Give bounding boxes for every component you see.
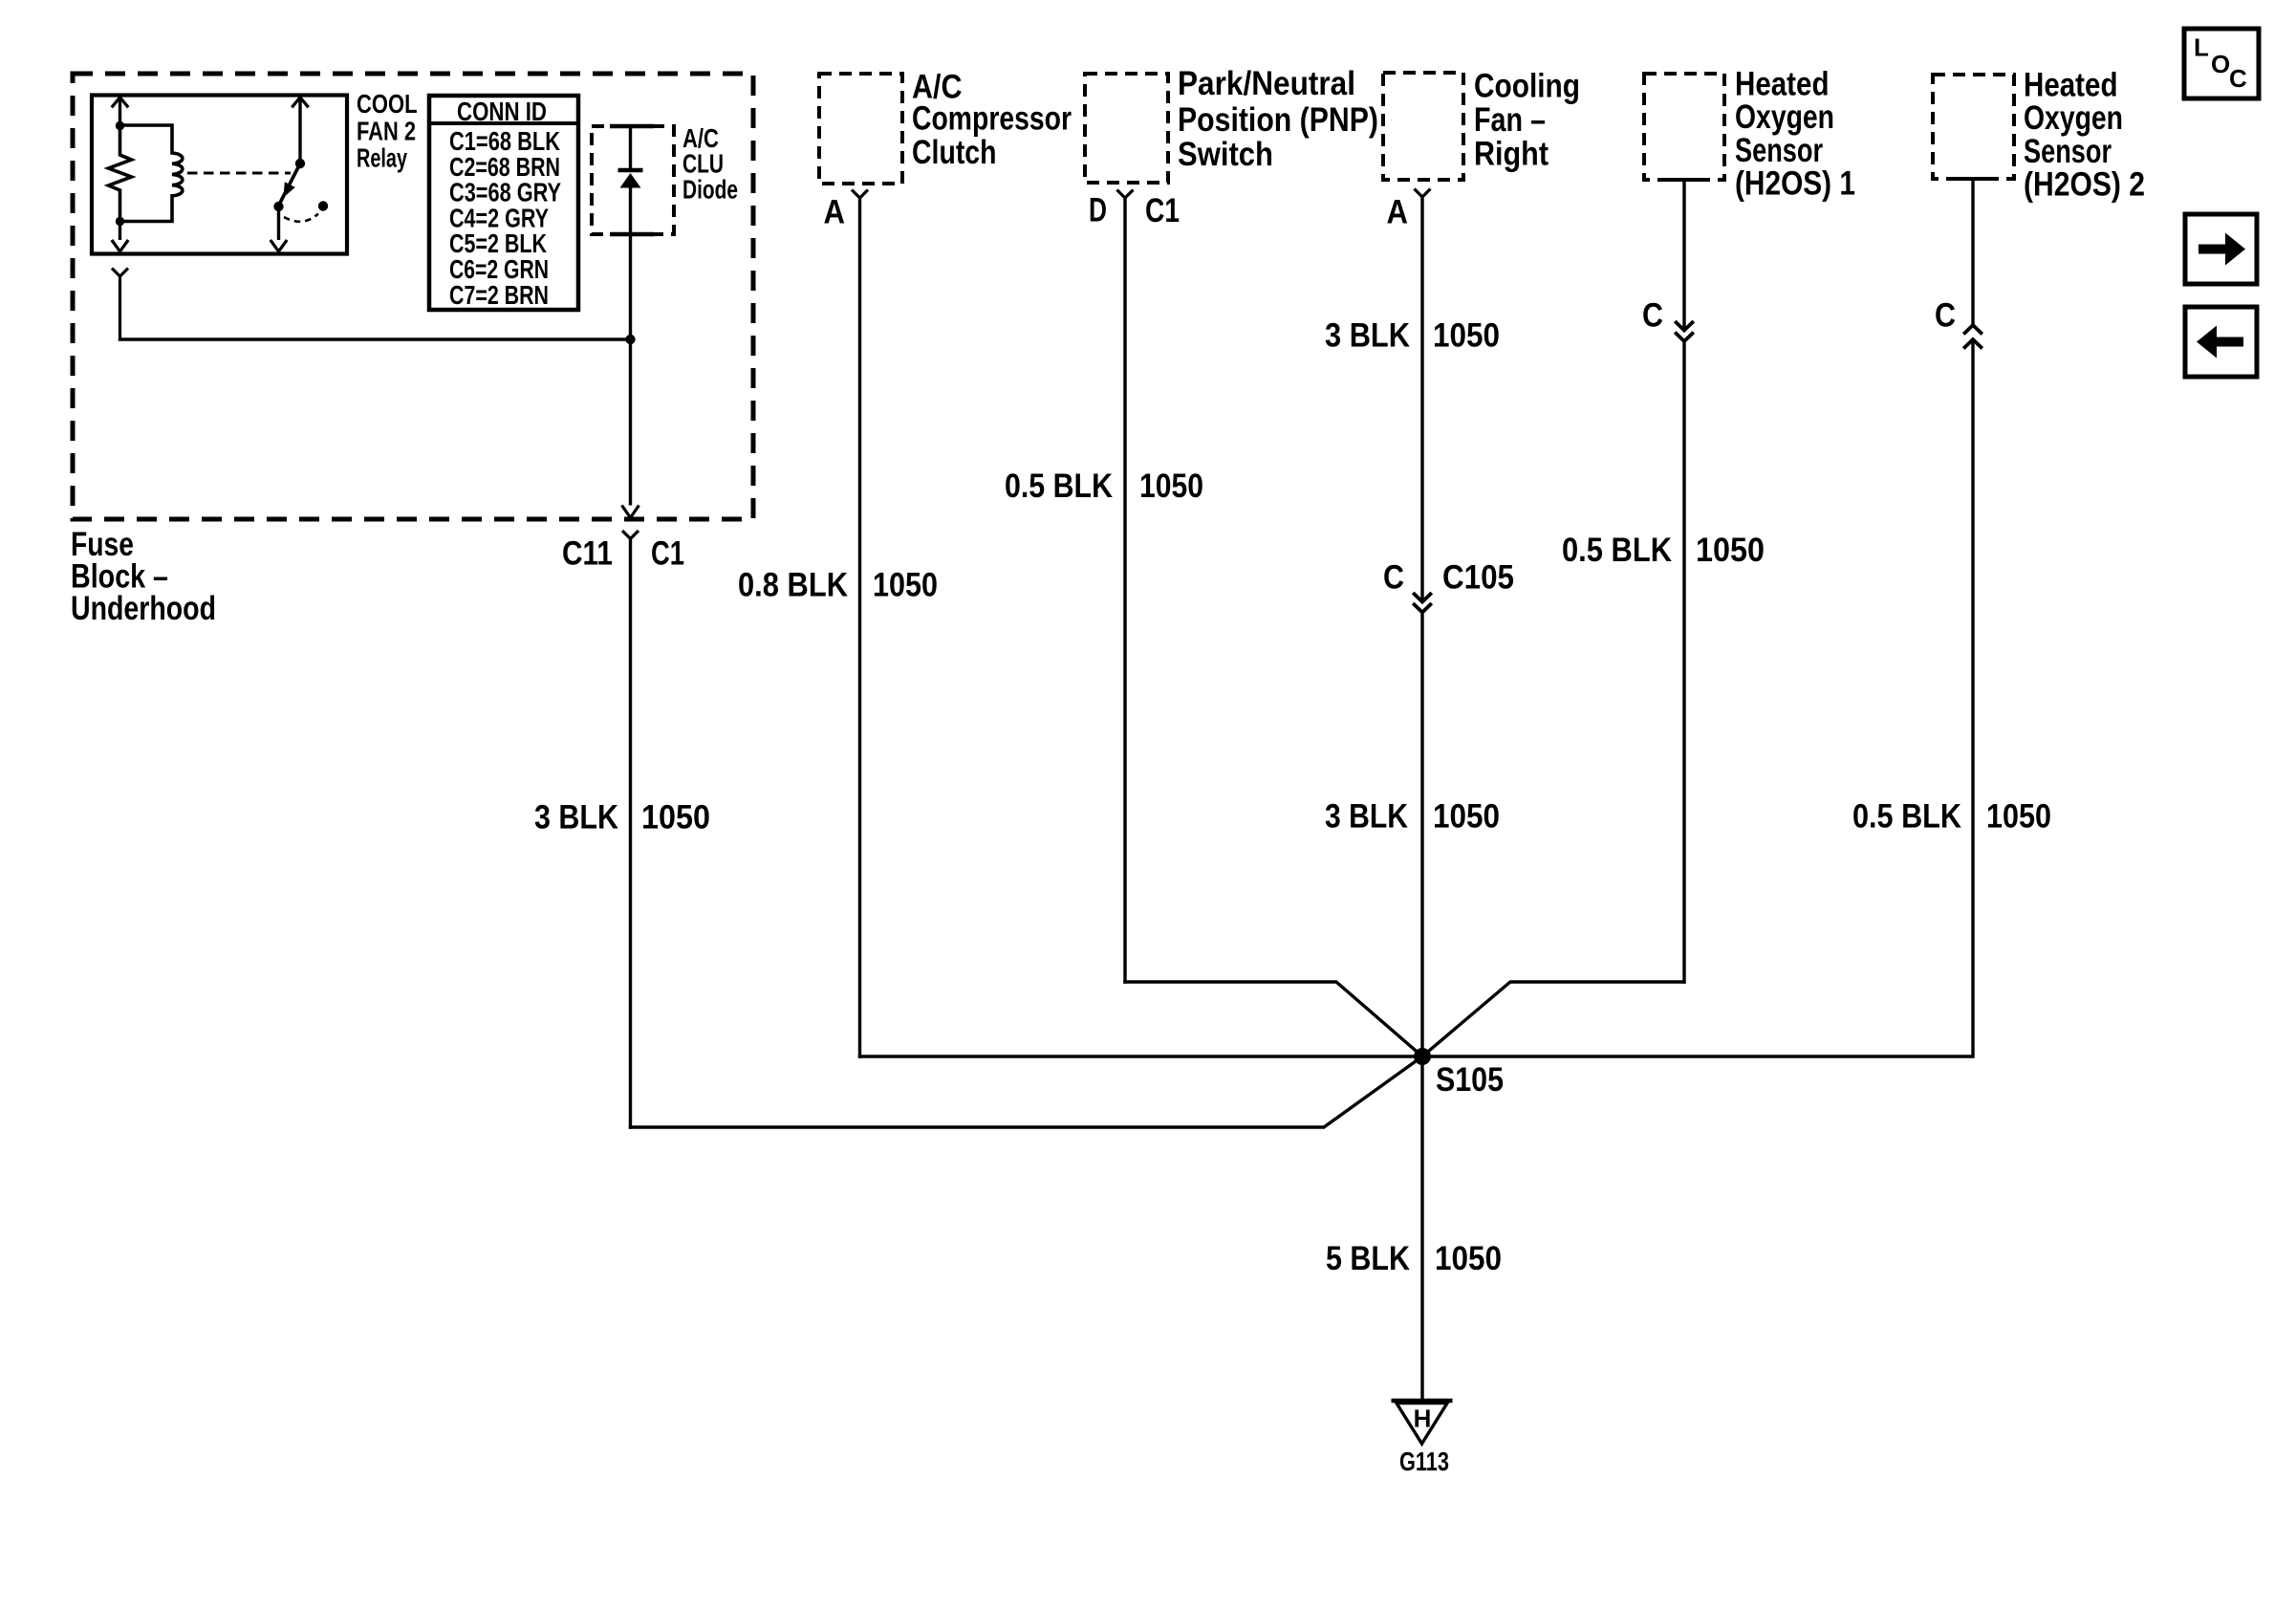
wire 0.8 BLK 1050 from clutch pin A bbox=[858, 198, 861, 1058]
svg-text:Cooling: Cooling bbox=[1474, 68, 1580, 105]
connector C inline H2OS1 (chevrons down) bbox=[1642, 297, 1694, 342]
wire PNP horizontal run to S105 bbox=[1123, 982, 1423, 1057]
A/C Compressor Clutch label bbox=[912, 69, 1072, 172]
svg-text:C1: C1 bbox=[651, 535, 684, 573]
page-forward arrow box bbox=[2185, 214, 2257, 284]
connector C inline H2OS2 (chevrons up) bbox=[1935, 297, 1982, 349]
connector pin D / C1 of PNP switch bbox=[1089, 190, 1180, 230]
relay switch terminal 30 wire (top, arrow up) bbox=[292, 98, 308, 163]
svg-text:C11: C11 bbox=[562, 535, 613, 573]
CONN ID row C7 bbox=[449, 280, 549, 310]
label 5 BLK 1050 bbox=[1326, 1240, 1502, 1277]
svg-text:1050: 1050 bbox=[641, 799, 710, 837]
svg-text:G113: G113 bbox=[1399, 1447, 1449, 1476]
svg-text:0.5 BLK: 0.5 BLK bbox=[1852, 798, 1961, 836]
Park/Neutral Position Switch dashed box bbox=[1085, 74, 1168, 183]
svg-text:1050: 1050 bbox=[1986, 798, 2051, 836]
svg-text:3 BLK: 3 BLK bbox=[534, 799, 618, 837]
relay coil terminal 85 wire (top left, arrow up) bbox=[112, 98, 128, 126]
A/C Compressor Clutch dashed box bbox=[819, 74, 902, 184]
svg-text:L: L bbox=[2194, 33, 2209, 62]
relay switch blade with arrowhead bbox=[280, 163, 301, 204]
svg-text:3 BLK: 3 BLK bbox=[1325, 798, 1408, 836]
connector pin A of A/C clutch bbox=[824, 190, 869, 231]
relay switch NO contact bbox=[318, 201, 328, 210]
svg-text:D: D bbox=[1089, 192, 1107, 229]
relay switch terminal 87 wire (bottom, arrow down) bbox=[271, 208, 287, 251]
svg-text:CONN ID: CONN ID bbox=[457, 97, 547, 126]
svg-text:C: C bbox=[1383, 559, 1404, 597]
relay coil terminal 86 wire (bottom left, arrow down) bbox=[112, 222, 128, 252]
svg-text:1050: 1050 bbox=[1435, 1240, 1502, 1277]
svg-text:Sensor: Sensor bbox=[2024, 133, 2112, 170]
relay coil node bottom bbox=[116, 217, 124, 226]
svg-text:Underhood: Underhood bbox=[71, 590, 216, 627]
label 3 BLK 1050 (left wire) bbox=[534, 799, 710, 837]
svg-text:S105: S105 bbox=[1436, 1061, 1504, 1099]
svg-text:C: C bbox=[1642, 297, 1663, 335]
svg-text:Clutch: Clutch bbox=[912, 134, 997, 171]
relay switch lower contact bbox=[273, 202, 283, 211]
svg-text:0.5 BLK: 0.5 BLK bbox=[1005, 468, 1113, 505]
relay coil resistor bbox=[109, 126, 132, 222]
relay COOL FAN 2 outline box bbox=[92, 96, 347, 254]
CONN ID row C3 bbox=[449, 178, 561, 207]
label 0.5 BLK 1050 (H2OS2) bbox=[1852, 798, 2051, 836]
A/C CLU Diode dashed box bbox=[592, 126, 674, 234]
Heated Oxygen Sensor 1 dashed box bbox=[1644, 74, 1724, 180]
svg-text:A: A bbox=[1387, 194, 1409, 231]
svg-text:Diode: Diode bbox=[682, 175, 738, 205]
svg-text:Heated: Heated bbox=[1735, 66, 1830, 103]
wire 0.5 BLK 1050 from PNP pin D bbox=[1123, 198, 1126, 984]
diode symbol bbox=[618, 128, 643, 337]
svg-text:Right: Right bbox=[1474, 136, 1549, 173]
wire 0.5 BLK 1050 from H2OS2 down to bus bbox=[1971, 339, 1974, 1058]
wire H2OS1 horizontal run to S105 bbox=[1421, 982, 1686, 1057]
splice node S105 bbox=[1414, 1048, 1504, 1099]
svg-text:C: C bbox=[2229, 64, 2247, 93]
svg-text:(H2OS) 1: (H2OS) 1 bbox=[1735, 165, 1855, 203]
svg-text:Compressor: Compressor bbox=[912, 100, 1072, 138]
CONN ID row C6 bbox=[449, 254, 549, 284]
PNP switch label bbox=[1178, 65, 1378, 173]
relay switch pivot contact bbox=[295, 159, 305, 168]
connector pin A of cooling fan bbox=[1387, 189, 1431, 231]
LOC legend box bbox=[2184, 29, 2259, 98]
svg-text:0.8 BLK: 0.8 BLK bbox=[738, 567, 848, 604]
svg-text:Sensor: Sensor bbox=[1735, 132, 1823, 169]
svg-text:H: H bbox=[1414, 1404, 1432, 1433]
svg-text:C7=2 BRN: C7=2 BRN bbox=[449, 280, 549, 310]
CONN ID row C5 bbox=[449, 229, 547, 258]
relay actuation link (dashed) bbox=[187, 172, 291, 175]
relay coil node top bbox=[116, 121, 124, 130]
Heated Oxygen Sensor 2 dashed box bbox=[1933, 75, 2014, 179]
wire 3 BLK 1050 from fan pin A bbox=[1420, 197, 1423, 602]
page-back arrow box bbox=[2185, 307, 2257, 377]
ground G113 symbol bbox=[1392, 1401, 1453, 1444]
relay label COOL FAN 2 Relay bbox=[357, 89, 418, 173]
svg-text:FAN 2: FAN 2 bbox=[357, 117, 416, 146]
wire C1 horizontal run to S105 bbox=[629, 1056, 1423, 1127]
svg-text:3 BLK: 3 BLK bbox=[1325, 317, 1410, 355]
H2OS 1 label bbox=[1735, 66, 1855, 203]
fuse block label bbox=[71, 526, 216, 627]
Cooling Fan label bbox=[1474, 68, 1580, 173]
label 0.5 BLK 1050 (PNP) bbox=[1005, 468, 1203, 505]
fuse block - underhood (dashed outline) bbox=[73, 74, 753, 519]
Cooling Fan Right dashed box bbox=[1383, 73, 1463, 180]
label 0.8 BLK 1050 bbox=[738, 567, 938, 604]
connector C11/C1 (fuse block to harness) bbox=[562, 531, 684, 573]
svg-text:Park/Neutral: Park/Neutral bbox=[1178, 65, 1355, 102]
svg-text:Position (PNP): Position (PNP) bbox=[1178, 101, 1378, 139]
svg-text:O: O bbox=[2211, 50, 2230, 78]
wire 3 BLK 1050 from C105 to S105 and ground bbox=[1420, 613, 1423, 1402]
wire 3 BLK 1050 from C1 down bbox=[629, 539, 632, 1129]
svg-text:Oxygen: Oxygen bbox=[1735, 98, 1834, 136]
svg-text:1050: 1050 bbox=[1433, 317, 1500, 355]
node diode-relay junction bbox=[625, 335, 635, 344]
svg-text:1050: 1050 bbox=[873, 567, 938, 604]
CONN ID table box bbox=[429, 96, 578, 310]
svg-text:Heated: Heated bbox=[2024, 67, 2118, 104]
svg-text:(H2OS) 2: (H2OS) 2 bbox=[2024, 166, 2145, 204]
ground G113 label bbox=[1399, 1447, 1449, 1476]
wire H2OS2 pin C upper bbox=[1971, 179, 1974, 325]
H2OS 2 label bbox=[2024, 67, 2145, 204]
svg-text:C105: C105 bbox=[1442, 559, 1514, 597]
CONN ID table header bbox=[457, 97, 547, 126]
svg-text:1050: 1050 bbox=[1433, 798, 1500, 836]
svg-text:Switch: Switch bbox=[1178, 136, 1273, 173]
wire diode node to fuse block edge C11 (arrow down) bbox=[622, 339, 639, 518]
CONN ID row C2 bbox=[449, 152, 560, 182]
wire main horizontal bus into S105 bbox=[858, 1055, 1973, 1057]
wire relay 86 to diode node bbox=[112, 269, 631, 340]
svg-text:Relay: Relay bbox=[357, 143, 407, 173]
wire H2OS1 pin C upper bbox=[1682, 180, 1685, 331]
CONN ID row C1 bbox=[449, 126, 560, 156]
label 3 BLK 1050 (fan upper) bbox=[1325, 317, 1500, 355]
relay coil winding bbox=[120, 125, 183, 222]
CONN ID row C4 bbox=[449, 204, 549, 233]
A/C CLU Diode label bbox=[682, 123, 738, 205]
relay switch travel arc (dashed) bbox=[284, 214, 318, 222]
svg-text:0.5 BLK: 0.5 BLK bbox=[1562, 532, 1672, 569]
connector C105 inline (chevrons down) bbox=[1383, 559, 1514, 613]
svg-text:C1: C1 bbox=[1145, 192, 1180, 229]
svg-text:Oxygen: Oxygen bbox=[2024, 99, 2123, 137]
svg-text:C: C bbox=[1935, 297, 1956, 335]
svg-text:5 BLK: 5 BLK bbox=[1326, 1240, 1410, 1277]
label 0.5 BLK 1050 (H2OS1) bbox=[1562, 532, 1765, 569]
svg-text:1050: 1050 bbox=[1696, 532, 1765, 569]
wire 0.5 BLK 1050 from H2OS1 bbox=[1682, 341, 1685, 984]
svg-text:1050: 1050 bbox=[1139, 468, 1203, 505]
svg-text:Fan –: Fan – bbox=[1474, 101, 1546, 139]
svg-text:A: A bbox=[824, 194, 846, 231]
label 3 BLK 1050 (fan lower) bbox=[1325, 798, 1500, 836]
svg-text:COOL: COOL bbox=[357, 89, 418, 119]
